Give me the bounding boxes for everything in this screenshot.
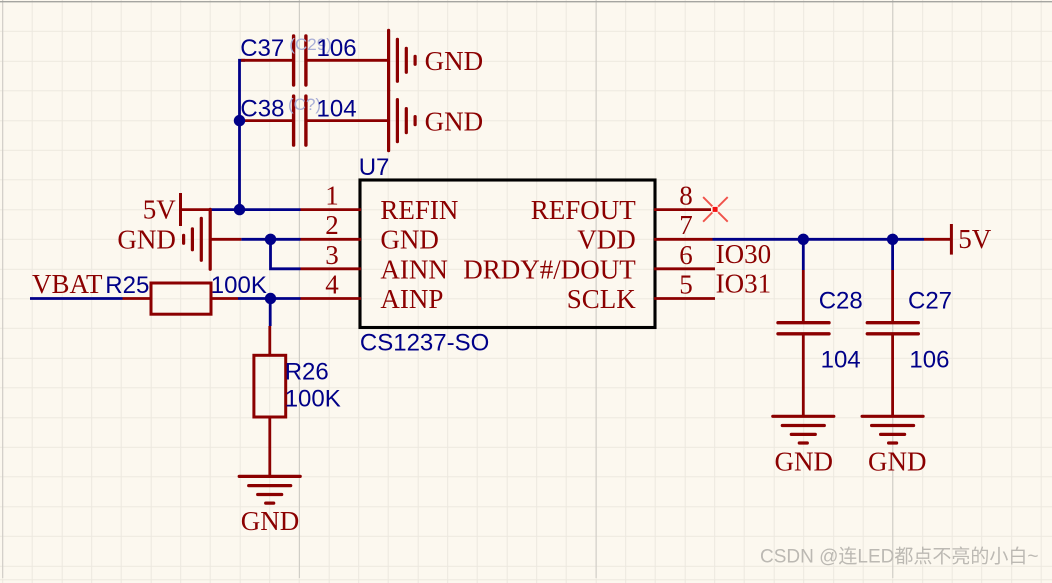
value label 100K (R25) (211, 272, 267, 299)
wire C37 net vertical from 5V node up to C37 (240, 60, 246, 209)
pin name DRDY#/DOUT (463, 254, 636, 284)
junction node C27 tap (887, 234, 898, 245)
value label 100K (R26) (285, 386, 341, 413)
pin number 4 (325, 270, 339, 300)
junction node 5V/C-filter tap (234, 204, 245, 215)
pin 4 stub (301, 297, 362, 300)
junction node GND/AINN tap (265, 234, 276, 245)
ground symbol (below R26) (239, 476, 300, 536)
svg-text:GND: GND (868, 446, 927, 476)
svg-text:C27: C27 (908, 287, 952, 314)
svg-text:2: 2 (325, 210, 339, 240)
svg-text:5: 5 (679, 270, 693, 300)
label C27 (908, 287, 952, 314)
net label IO30 (716, 239, 772, 269)
svg-text:C28: C28 (819, 287, 863, 314)
value label 104 (C28) (821, 347, 861, 374)
svg-text:100K: 100K (211, 272, 267, 299)
pin number 6 (679, 240, 693, 270)
capacitor C28 (778, 323, 829, 334)
wire VBAT (30, 297, 123, 300)
resistor R26 (254, 355, 286, 417)
pin number 7 (679, 210, 693, 240)
label U7 (359, 154, 390, 181)
svg-text:GND: GND (425, 107, 484, 137)
pin 3 stub (301, 267, 362, 270)
ground symbol (left, near 5V) (117, 209, 210, 269)
svg-text:DRDY#/DOUT: DRDY#/DOUT (463, 254, 636, 284)
no-connect X on pin 8 (703, 197, 728, 222)
net label VBAT (32, 269, 103, 299)
svg-text:U7: U7 (359, 154, 390, 181)
svg-text:CSDN @连LED都点不亮的小白~: CSDN @连LED都点不亮的小白~ (760, 546, 1038, 568)
wire C38 left pin (240, 119, 293, 122)
ground symbol (right of C38) (389, 91, 484, 151)
IC U7 body (360, 180, 655, 328)
pin number 5 (679, 270, 693, 300)
svg-text:REFIN: REFIN (380, 195, 458, 225)
svg-text:IO30: IO30 (716, 239, 772, 269)
label CS1237-SO (360, 330, 489, 357)
label C37 (240, 35, 284, 62)
svg-text:C38: C38 (240, 96, 284, 123)
svg-text:3: 3 (325, 240, 339, 270)
svg-text:5V: 5V (958, 224, 992, 254)
pin name GND (380, 225, 439, 255)
pin 6 stub (654, 267, 715, 270)
pin 5 stub (654, 297, 715, 300)
wire VDD to 5V rail (713, 238, 925, 241)
svg-text:GND: GND (241, 506, 299, 536)
svg-text:GND: GND (117, 224, 175, 254)
svg-text:GND: GND (380, 225, 439, 255)
svg-text:AINP: AINP (380, 284, 443, 314)
ghost label (C?) (288, 95, 321, 114)
value label 104 (317, 96, 357, 123)
wire C37 left pin (241, 59, 292, 62)
pin name REFOUT (531, 195, 637, 225)
pin 7 stub (654, 238, 713, 241)
power symbol 5V (right) (951, 224, 991, 255)
wire R25 to pin4 (238, 297, 301, 300)
pin number 3 (325, 240, 339, 270)
wire C28 top pin (802, 239, 805, 321)
ground symbol (below C27) (862, 416, 926, 476)
resistor R25 (123, 283, 239, 314)
svg-text:AINN: AINN (380, 254, 448, 284)
wire R26 bottom to GND (268, 417, 271, 476)
wire GND tap down to pin3 (271, 239, 301, 268)
pin name REFIN (380, 195, 458, 225)
pin number 8 (679, 180, 693, 210)
svg-text:IO31: IO31 (716, 269, 772, 299)
svg-text:REFOUT: REFOUT (531, 195, 637, 225)
capacitor C27 (867, 323, 918, 334)
wire GND to pin2 (210, 238, 300, 241)
svg-text:106: 106 (317, 35, 357, 62)
pin 1 stub (301, 208, 362, 211)
pin name AINN (380, 254, 448, 284)
pin 8 stub (654, 208, 711, 211)
svg-text:104: 104 (317, 96, 357, 123)
wire down to R26 (268, 299, 271, 356)
svg-text:1: 1 (325, 180, 339, 210)
svg-text:4: 4 (325, 270, 339, 300)
svg-text:100K: 100K (285, 386, 341, 413)
ground symbol (below C28) (773, 416, 834, 476)
svg-text:6: 6 (679, 240, 693, 270)
junction node at C38 tap (234, 115, 245, 126)
label R26 (285, 358, 329, 385)
label R25 (105, 272, 149, 299)
junction node AINP/R26 tap (265, 293, 276, 304)
svg-text:5V: 5V (143, 195, 177, 225)
wire C27 top pin (891, 239, 894, 321)
svg-text:106: 106 (909, 347, 949, 374)
label C28 (819, 287, 863, 314)
pin number 1 (325, 180, 339, 210)
wire C37 right pin to GND (307, 59, 389, 62)
capacitor C38 (294, 96, 306, 145)
svg-text:C37: C37 (240, 35, 284, 62)
svg-text:R26: R26 (285, 358, 329, 385)
wire C28 bottom pin to GND (802, 335, 805, 416)
svg-text:7: 7 (679, 210, 693, 240)
value label 106 (C27) (909, 347, 949, 374)
pin name VDD (577, 225, 636, 255)
svg-text:104: 104 (821, 347, 861, 374)
ground symbol (right of C37) (389, 30, 484, 90)
svg-text:R25: R25 (105, 272, 149, 299)
ghost label (C29) (289, 35, 332, 54)
net label IO31 (716, 269, 772, 299)
wire 5V stub (right) (924, 238, 951, 241)
wire 5V to pin1 (181, 208, 301, 211)
pin 2 stub (301, 238, 362, 241)
value label 106 (317, 35, 357, 62)
power symbol 5V (left) (143, 193, 181, 226)
svg-text:VDD: VDD (577, 225, 636, 255)
svg-text:VBAT: VBAT (32, 269, 103, 299)
svg-text:CS1237-SO: CS1237-SO (360, 330, 489, 357)
junction node C28 tap (798, 234, 809, 245)
watermark (760, 546, 1038, 568)
label C38 (240, 96, 284, 123)
svg-text:8: 8 (679, 180, 693, 210)
capacitor C37 (294, 36, 306, 85)
svg-text:GND: GND (425, 46, 484, 76)
svg-text:GND: GND (775, 446, 834, 476)
wire C27 bottom pin to GND (891, 335, 894, 416)
pin name SCLK (567, 284, 637, 314)
pin number 2 (325, 210, 339, 240)
pin name AINP (380, 284, 443, 314)
wire C38 right pin to GND (307, 119, 389, 122)
svg-text:SCLK: SCLK (567, 284, 637, 314)
